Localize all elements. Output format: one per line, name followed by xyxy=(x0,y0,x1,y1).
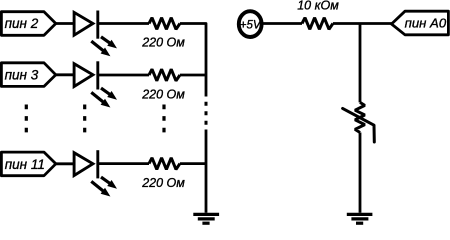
resistor R3 xyxy=(149,158,180,170)
wire R1 to bus and bus down xyxy=(180,24,206,97)
bus solid lower segment xyxy=(205,130,208,213)
photoresistor diagonal stroke xyxy=(343,108,375,142)
LED D2 xyxy=(74,61,98,89)
wire pin11 to LED3 xyxy=(56,162,74,165)
ellipsis dots under resistor column xyxy=(162,105,165,134)
wire R2 to bus xyxy=(180,74,206,77)
pin label пин 2 xyxy=(1,12,55,36)
wire +5V to R4 xyxy=(263,22,302,25)
pin label пин 11 xyxy=(1,152,55,176)
bus dashed segment xyxy=(205,102,208,125)
wire LED1 to R1 xyxy=(98,22,149,25)
wire R4 to pin A0 xyxy=(333,22,392,25)
LED D2 emission arrows xyxy=(91,88,117,107)
resistor R1 xyxy=(149,18,180,30)
LED D1 emission arrows xyxy=(91,37,117,56)
svg-text:пин 11: пин 11 xyxy=(5,157,45,172)
wire R5 to ground xyxy=(359,133,362,213)
svg-text:10 кОм: 10 кОм xyxy=(297,0,339,13)
ellipsis dots under pin column xyxy=(25,105,28,134)
LED D1 xyxy=(74,11,98,39)
ground (left bus) xyxy=(193,214,219,223)
svg-text:пин 2: пин 2 xyxy=(5,16,39,31)
wire R3 to bus xyxy=(180,162,206,165)
svg-text:220 Ом: 220 Ом xyxy=(141,87,185,101)
wire pin3 to LED2 xyxy=(56,73,74,76)
pin label пин 3 xyxy=(1,63,55,87)
ellipsis dots under LED column xyxy=(83,105,86,134)
pin label пин A0 xyxy=(392,11,449,35)
LED D3 xyxy=(74,150,98,178)
ground (right) xyxy=(347,214,373,223)
resistor R2 xyxy=(149,69,180,81)
wire LED3 to R3 xyxy=(98,162,149,165)
resistor R4 xyxy=(302,18,333,30)
wire pin2 to LED1 xyxy=(56,22,74,25)
svg-text:220 Ом: 220 Ом xyxy=(141,36,185,50)
LED D3 emission arrows xyxy=(91,177,117,196)
svg-text:пин A0: пин A0 xyxy=(405,16,447,31)
photoresistor R5 xyxy=(355,102,365,132)
svg-text:220 Ом: 220 Ом xyxy=(141,176,185,190)
wire LED2 to R2 xyxy=(98,74,149,77)
svg-text:+5V: +5V xyxy=(240,17,262,31)
power source +5V xyxy=(239,11,262,37)
svg-text:пин 3: пин 3 xyxy=(5,67,39,82)
node junction wire down xyxy=(359,24,362,103)
